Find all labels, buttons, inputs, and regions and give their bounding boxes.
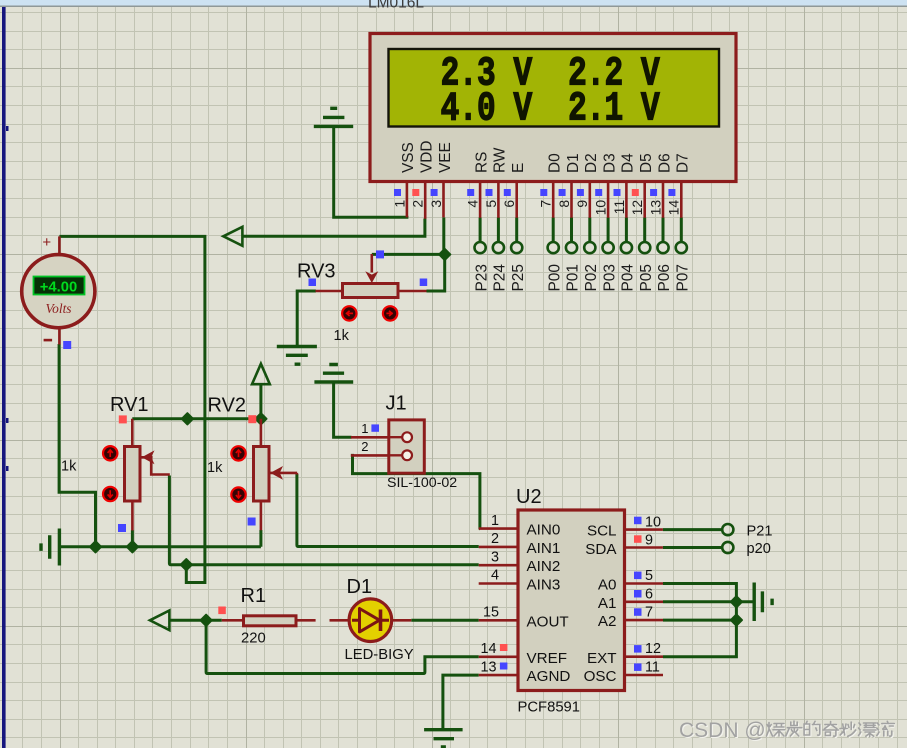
svg-text:VREF: VREF (527, 650, 568, 667)
svg-text:VEE: VEE (437, 142, 454, 173)
svg-text:1: 1 (491, 513, 499, 529)
svg-text:E: E (510, 163, 527, 173)
svg-text:12: 12 (645, 641, 661, 657)
svg-text:D1: D1 (347, 576, 373, 598)
svg-text:P05: P05 (638, 264, 655, 291)
svg-text:RV2: RV2 (208, 395, 247, 417)
svg-text:D1: D1 (565, 153, 582, 173)
svg-text:EXT: EXT (587, 650, 617, 667)
svg-text:VDD: VDD (419, 141, 436, 174)
svg-text:1k: 1k (61, 459, 77, 475)
svg-text:3: 3 (428, 200, 444, 208)
svg-text:p20: p20 (747, 541, 771, 557)
svg-text:D4: D4 (620, 153, 637, 173)
svg-text:P00: P00 (546, 264, 563, 291)
svg-text:P07: P07 (675, 264, 692, 291)
svg-text:Volts: Volts (45, 301, 71, 316)
svg-text:+4.00: +4.00 (40, 279, 77, 295)
svg-text:PCF8591: PCF8591 (518, 700, 581, 716)
svg-text:SDA: SDA (585, 541, 617, 558)
svg-text:P21: P21 (747, 523, 773, 539)
svg-text:RS: RS (473, 152, 490, 173)
svg-text:10: 10 (645, 514, 661, 530)
svg-text:AIN0: AIN0 (527, 522, 561, 539)
svg-text:6: 6 (501, 200, 517, 208)
svg-text:D5: D5 (638, 153, 655, 173)
svg-text:P25: P25 (510, 264, 527, 291)
svg-text:10: 10 (593, 200, 609, 216)
svg-text:11: 11 (611, 200, 627, 215)
svg-text:P04: P04 (620, 264, 637, 292)
svg-text:9: 9 (645, 533, 653, 549)
svg-text:D0: D0 (547, 153, 564, 173)
svg-text:D2: D2 (583, 153, 600, 173)
svg-text:7: 7 (645, 605, 653, 621)
svg-text:+: + (42, 234, 51, 251)
svg-text:5: 5 (645, 568, 653, 584)
svg-text:LED-BIGY: LED-BIGY (345, 647, 414, 663)
svg-text:P03: P03 (601, 264, 618, 291)
svg-text:4.0 V 2.1 V: 4.0 V 2.1 V (441, 86, 660, 132)
svg-text:2: 2 (491, 531, 499, 547)
svg-text:P01: P01 (565, 264, 582, 291)
svg-text:A0: A0 (598, 577, 617, 594)
svg-text:P02: P02 (583, 264, 600, 291)
svg-text:LM016L: LM016L (368, 0, 424, 12)
svg-text:D6: D6 (656, 153, 673, 173)
svg-text:220: 220 (241, 631, 266, 647)
svg-text:13: 13 (480, 660, 496, 676)
svg-text:7: 7 (538, 200, 554, 208)
svg-text:RV1: RV1 (110, 394, 149, 416)
svg-text:12: 12 (629, 200, 645, 216)
svg-text:2: 2 (361, 439, 368, 454)
svg-text:RV3: RV3 (297, 261, 336, 283)
svg-text:A2: A2 (598, 613, 617, 630)
svg-text:8: 8 (556, 200, 572, 208)
svg-text:RW: RW (492, 147, 509, 173)
svg-text:P06: P06 (656, 264, 673, 291)
svg-text:13: 13 (647, 200, 663, 216)
svg-text:1k: 1k (207, 460, 223, 476)
svg-text:AIN3: AIN3 (527, 577, 561, 594)
svg-text:6: 6 (645, 586, 653, 602)
svg-text:AIN1: AIN1 (527, 540, 561, 557)
svg-text:1: 1 (391, 200, 407, 208)
svg-text:AGND: AGND (527, 668, 571, 685)
svg-text:4: 4 (491, 568, 499, 584)
svg-text:D3: D3 (601, 153, 618, 173)
svg-text:3: 3 (491, 549, 499, 565)
svg-text:OSC: OSC (584, 668, 617, 685)
svg-text:P24: P24 (492, 264, 509, 292)
svg-text:14: 14 (666, 200, 682, 216)
svg-text:2: 2 (410, 200, 426, 208)
svg-text:1k: 1k (334, 328, 350, 344)
svg-text:1: 1 (361, 421, 368, 436)
svg-text:P23: P23 (473, 264, 490, 291)
svg-text:9: 9 (574, 200, 590, 208)
svg-text:CSDN @: CSDN @ (679, 719, 766, 742)
svg-text:SIL-100-02: SIL-100-02 (387, 475, 457, 491)
svg-text:J1: J1 (386, 393, 407, 415)
svg-text:VSS: VSS (400, 142, 417, 173)
svg-text:U2: U2 (516, 486, 542, 508)
svg-text:15: 15 (483, 605, 499, 621)
svg-text:SCL: SCL (587, 523, 617, 540)
svg-text:14: 14 (480, 641, 496, 657)
svg-text:D7: D7 (675, 153, 692, 173)
svg-text:R1: R1 (241, 585, 267, 607)
svg-text:A1: A1 (598, 595, 617, 612)
svg-text:5: 5 (483, 200, 499, 208)
svg-text:11: 11 (645, 660, 660, 676)
svg-text:AIN2: AIN2 (527, 558, 561, 575)
svg-text:AOUT: AOUT (527, 613, 569, 630)
svg-text:4: 4 (465, 200, 481, 208)
